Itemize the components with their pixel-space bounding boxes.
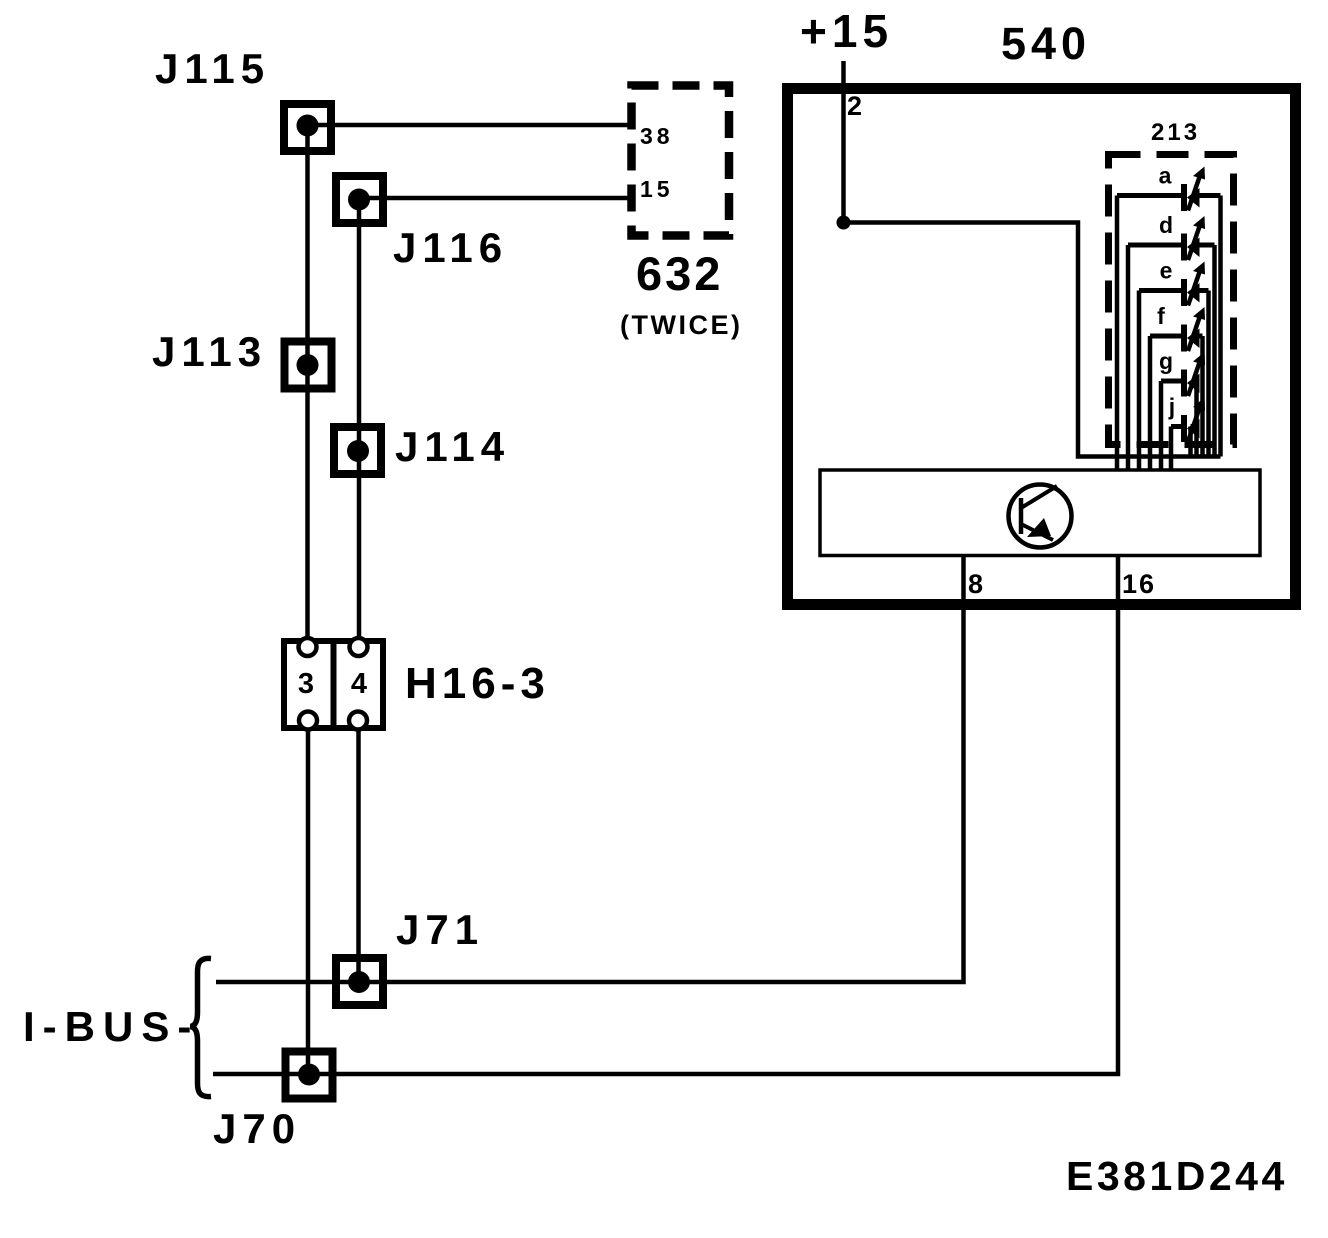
svg-text:J70: J70 <box>213 1105 301 1152</box>
svg-text:213: 213 <box>1151 119 1200 146</box>
svg-text:J113: J113 <box>152 328 267 375</box>
svg-text:j: j <box>1168 394 1175 420</box>
svg-text:e: e <box>1160 258 1173 284</box>
svg-text:f: f <box>1157 303 1165 329</box>
svg-text:J115: J115 <box>155 45 270 92</box>
svg-text:+15: +15 <box>800 5 893 57</box>
svg-text:I-BUS-: I-BUS- <box>23 1003 199 1050</box>
svg-text:15: 15 <box>640 176 674 202</box>
svg-text:H16-3: H16-3 <box>405 659 550 708</box>
svg-text:a: a <box>1159 163 1172 189</box>
svg-text:E381D244: E381D244 <box>1066 1153 1288 1199</box>
svg-text:2: 2 <box>847 91 862 121</box>
svg-text:J116: J116 <box>393 224 508 271</box>
svg-text:3: 3 <box>298 668 314 700</box>
svg-text:J71: J71 <box>396 906 484 953</box>
svg-text:38: 38 <box>640 123 674 149</box>
svg-text:8: 8 <box>968 569 985 599</box>
svg-text:540: 540 <box>1001 18 1091 69</box>
svg-text:16: 16 <box>1122 569 1156 599</box>
svg-text:632: 632 <box>636 247 723 300</box>
svg-text:4: 4 <box>351 668 367 700</box>
svg-text:g: g <box>1159 348 1173 374</box>
svg-text:d: d <box>1159 212 1173 238</box>
svg-text:(TWICE): (TWICE) <box>620 310 742 340</box>
svg-text:J114: J114 <box>395 423 510 470</box>
